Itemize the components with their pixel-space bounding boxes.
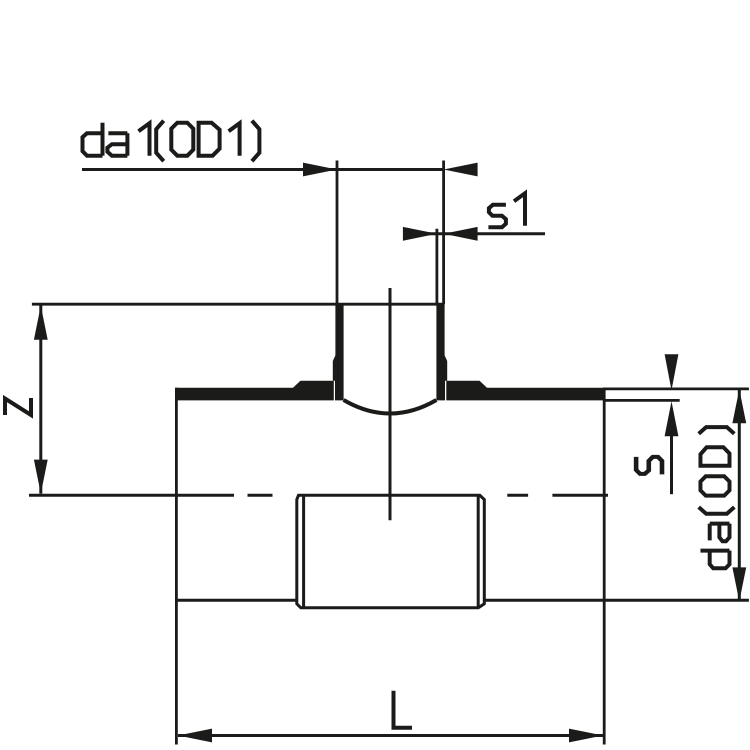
tee body section fill, left shoulder — [175, 381, 334, 401]
spigot chamfer edge, left — [302, 495, 305, 608]
z extension / branch top line — [32, 303, 445, 306]
branch vertical centreline — [389, 288, 392, 520]
horizontal centreline dash 2 — [552, 494, 608, 497]
s arrow upper — [665, 354, 679, 390]
L arrow left — [178, 729, 212, 743]
s extension line inner — [603, 399, 680, 402]
horizontal centreline dot — [248, 494, 273, 497]
label L — [394, 691, 413, 728]
label z (rotated) — [5, 398, 31, 415]
label s1 — [488, 205, 506, 228]
s leader stem — [670, 434, 673, 494]
da1 dimension line — [82, 168, 444, 171]
z dimension line — [39, 304, 42, 493]
label da(OD) (rotated) — [700, 551, 729, 569]
da1 extension line right — [442, 161, 445, 305]
da(OD) arrow top — [732, 389, 746, 423]
s1 arrow left — [403, 227, 437, 241]
s extension line outer — [603, 387, 749, 390]
label da1(OD1) — [83, 121, 260, 162]
s1 arrow right — [444, 227, 478, 241]
z arrow bottom — [34, 460, 48, 494]
s1 dimension/leader line — [403, 232, 545, 235]
label s (rotated) — [636, 457, 662, 475]
body right edge + L extension line — [603, 388, 606, 744]
centre spigot outline — [297, 495, 485, 608]
da(OD) dimension line — [738, 389, 741, 601]
da(OD) arrow bottom — [732, 567, 746, 601]
s1 extension line — [435, 229, 438, 304]
label s1 digit — [514, 193, 525, 226]
z arrow top — [34, 306, 48, 340]
horizontal centreline dot 2 — [507, 494, 528, 497]
da1 arrow right — [444, 163, 478, 177]
da1 arrow left — [303, 163, 337, 177]
tee branch wall fill, right — [436, 306, 447, 401]
horizontal centreline dash 1 — [29, 494, 234, 497]
L dimension line — [178, 734, 603, 737]
tee branch wall fill, left — [333, 306, 344, 401]
body left edge + L extension line — [175, 388, 178, 745]
L arrow right — [569, 729, 603, 743]
s arrow lower — [665, 401, 679, 436]
spigot chamfer edge, right — [477, 495, 480, 608]
body bottom edge, left of spigot — [175, 599, 297, 602]
tee body section fill, right shoulder — [446, 381, 605, 401]
da1 extension line left — [336, 161, 339, 305]
branch inner bore arc — [344, 400, 437, 414]
body bottom edge right + da(OD) extension line — [484, 599, 749, 602]
